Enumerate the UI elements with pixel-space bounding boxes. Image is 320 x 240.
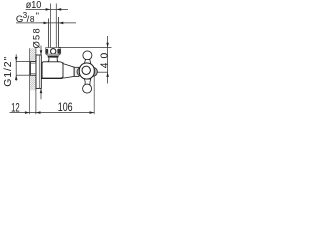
- handle hub: [79, 63, 94, 79]
- G1/2 dimension: extension lines: [16, 61, 30, 63]
- handle right ball (shaded): [89, 67, 98, 76]
- valve body: [42, 62, 63, 79]
- bottom dimension line: [10, 112, 95, 114]
- rosette (ø58 cover plate): [36, 55, 41, 88]
- body bottom heavy edge: [41, 77, 63, 79]
- handle stem (left arm): [74, 67, 79, 76]
- G1/2 dimension line with outside arrows: [15, 54, 18, 81]
- nut body outline: [46, 48, 61, 54]
- handle top ball: [83, 51, 92, 60]
- handle bottom ball: [83, 84, 92, 93]
- wall hatching lower block: [30, 75, 36, 90]
- bottom dimension extension line from handle: [93, 77, 95, 115]
- G1/2 threaded stub through wall: [30, 62, 37, 76]
- G3/8 threaded connector outline: [47, 19, 49, 48]
- bottom ball neck: [84, 79, 90, 85]
- neck below collar with flared feet: [48, 58, 59, 62]
- stub end cap: [30, 62, 31, 76]
- wall hatching upper block: [30, 48, 36, 61]
- svg-text:": ": [36, 11, 39, 22]
- arrow pointing right at wall left edge: [25, 111, 30, 114]
- leader line for G3/8": [16, 22, 76, 24]
- ø58 dimension line with arrows: [40, 46, 43, 100]
- wall face line: [35, 48, 37, 114]
- nut center ring: [51, 49, 56, 54]
- hub inner circle: [82, 66, 90, 74]
- nut chamfer: [46, 54, 61, 55]
- top ball neck: [84, 60, 90, 64]
- arrow right of G3/8 (points left): [59, 22, 64, 25]
- arrow pointing left at wall face (106 left end): [36, 111, 41, 114]
- handle left ball (behind hub): [77, 68, 85, 76]
- leader line for ø10: [26, 8, 68, 10]
- ø10 outlet tube: [50, 4, 52, 48]
- svg-text:8: 8: [30, 14, 35, 24]
- arrow right of ø10 (points left): [57, 8, 62, 11]
- cone toward handle: [63, 64, 74, 79]
- compression nut on top of valve: [46, 48, 61, 62]
- cone end face: [73, 67, 75, 76]
- nut right facet: [57, 49, 60, 54]
- svg-text:G1/2": G1/2": [2, 57, 14, 87]
- nut left facet: [46, 49, 49, 54]
- arrow pointing right at 106 right end: [90, 111, 95, 114]
- arrow left of G3/8 (points right): [44, 22, 49, 25]
- arrow left of ø10 (points right): [46, 8, 51, 11]
- 40 dim: top extension line (nut top level): [59, 46, 112, 48]
- rosette inner line: [38, 55, 40, 88]
- 40 dim: axis extension line: [97, 71, 108, 73]
- body end face line: [62, 62, 64, 78]
- 40 dimension line with outside arrows: [106, 36, 109, 84]
- dark collar band: [48, 56, 59, 58]
- wall left edge line: [29, 48, 31, 114]
- svg-text:Ø58: Ø58: [32, 28, 42, 48]
